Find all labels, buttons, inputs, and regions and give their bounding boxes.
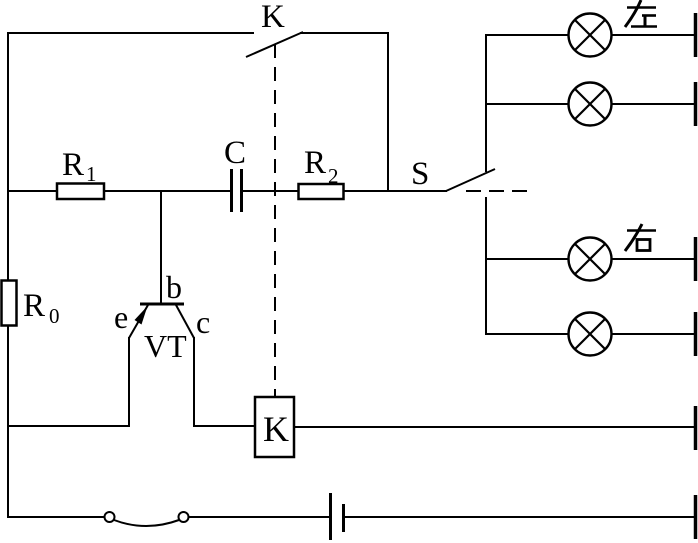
wire collector to relay bbox=[193, 425, 256, 427]
wire lamp3 right bbox=[611, 258, 695, 260]
wire rail segment A bbox=[7, 190, 58, 192]
bottom switch contact right bbox=[179, 512, 189, 522]
label b bbox=[166, 269, 182, 305]
svg-text:R: R bbox=[62, 147, 84, 183]
label K (relay) bbox=[263, 409, 289, 449]
wire left vertical upper bbox=[7, 32, 9, 281]
svg-text:0: 0 bbox=[49, 304, 60, 328]
svg-text:C: C bbox=[224, 135, 246, 171]
svg-text:S: S bbox=[411, 156, 429, 192]
wire right drop to rail bbox=[387, 32, 389, 192]
resistor R1 bbox=[57, 184, 104, 200]
wire relay to right terminal bbox=[294, 426, 695, 428]
bottom switch blade arc bbox=[114, 520, 179, 526]
wire bottom segment A bbox=[7, 516, 104, 518]
terminal bar relay output bbox=[694, 406, 698, 450]
wire top-left horizontal bbox=[8, 32, 254, 34]
resistor R0 bbox=[2, 281, 17, 326]
svg-text:1: 1 bbox=[86, 162, 97, 186]
wire lamp4 right bbox=[611, 333, 695, 335]
wire rail segment C bbox=[242, 190, 299, 192]
wire rail segment D bbox=[343, 190, 447, 192]
switch K blade bbox=[246, 32, 303, 57]
wire collector vertical bbox=[193, 337, 195, 427]
svg-text:VT: VT bbox=[144, 328, 187, 364]
wire lamp bus lower bbox=[485, 197, 487, 335]
terminal bar lamp1 bbox=[694, 13, 698, 57]
label S bbox=[411, 156, 429, 192]
label C bbox=[224, 135, 246, 171]
lamp 4 bbox=[569, 313, 612, 356]
switch S dashed throw line bbox=[466, 190, 527, 192]
wire lamp2 left bbox=[485, 103, 569, 105]
wire top-right horizontal bbox=[300, 32, 389, 34]
wire lamp2 right bbox=[611, 103, 695, 105]
resistor R2 bbox=[299, 184, 344, 199]
label c bbox=[196, 304, 210, 340]
label zuo (left) bbox=[625, 0, 657, 27]
svg-text:R: R bbox=[304, 145, 326, 181]
bottom switch contact left bbox=[105, 512, 115, 522]
lamp 3 bbox=[569, 238, 612, 281]
wire emitter vertical bbox=[128, 337, 130, 427]
terminal bar battery line bbox=[694, 495, 698, 539]
wire rail segment B bbox=[103, 190, 231, 192]
label R1 bbox=[62, 147, 97, 186]
relay coil K bbox=[255, 397, 294, 457]
lamp 2 bbox=[569, 83, 612, 126]
capacitor C bbox=[232, 169, 242, 212]
wire left vertical lower bbox=[7, 325, 9, 518]
node base junction drop bbox=[160, 191, 162, 305]
svg-text:K: K bbox=[261, 0, 285, 35]
label VT bbox=[144, 328, 187, 364]
svg-text:R: R bbox=[23, 288, 45, 324]
wire lamp1 left bbox=[485, 34, 569, 36]
transistor VT bbox=[129, 304, 194, 338]
label you (right) bbox=[625, 224, 656, 251]
svg-text:c: c bbox=[196, 304, 210, 340]
terminal bar lamp4 bbox=[694, 312, 698, 356]
wire bottom segment C bbox=[345, 516, 695, 518]
dashed link from switch K to relay bbox=[274, 44, 276, 396]
wire lamp bus upper bbox=[485, 34, 487, 172]
label e bbox=[114, 299, 128, 335]
svg-text:e: e bbox=[114, 299, 128, 335]
label K (top switch) bbox=[261, 0, 285, 35]
wire emitter bottom horizontal bbox=[7, 425, 130, 427]
label R0 bbox=[23, 288, 60, 328]
terminal bar lamp2 bbox=[694, 82, 698, 126]
lamp 1 bbox=[569, 14, 612, 57]
switch S blade bbox=[446, 169, 495, 191]
terminal bar lamp3 bbox=[694, 237, 698, 281]
wire lamp1 right bbox=[611, 34, 695, 36]
label R2 bbox=[304, 145, 339, 188]
wire lamp4 left bbox=[485, 333, 569, 335]
battery bbox=[331, 493, 344, 540]
wire bottom segment B bbox=[189, 516, 329, 518]
svg-text:2: 2 bbox=[328, 164, 339, 188]
svg-text:b: b bbox=[166, 269, 182, 305]
wire lamp3 left bbox=[485, 258, 569, 260]
svg-text:K: K bbox=[263, 409, 289, 449]
